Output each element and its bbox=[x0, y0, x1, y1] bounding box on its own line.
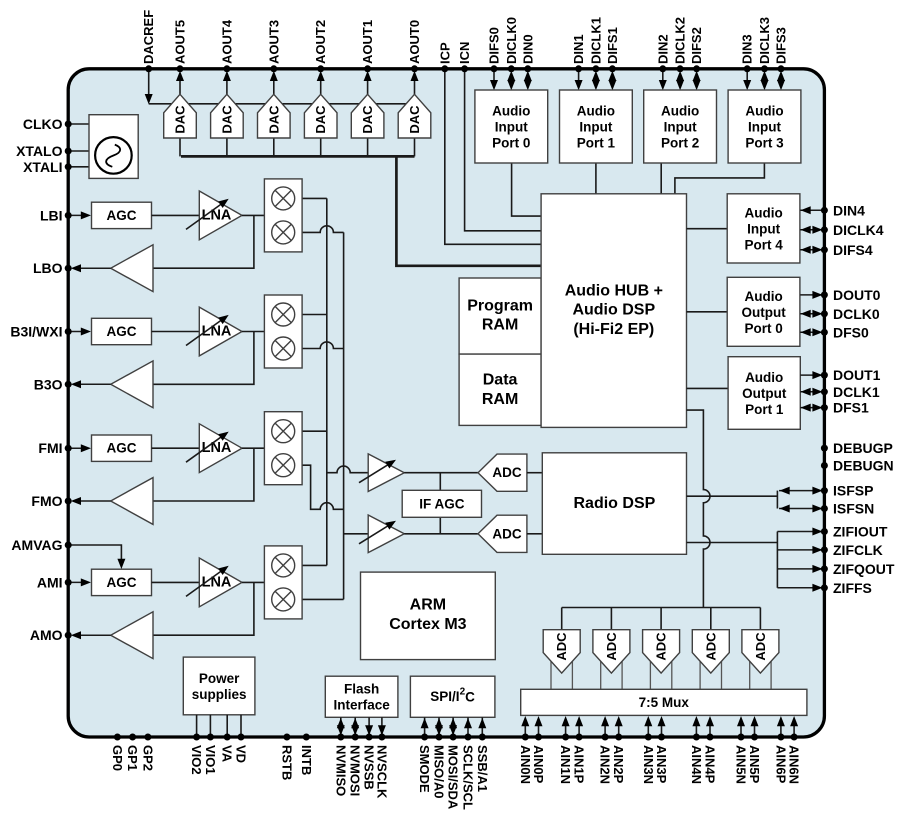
pin dot DCLK0 bbox=[821, 310, 828, 317]
wire IF amplifier 1 to ADC bbox=[404, 472, 478, 474]
pin wire AIN4N (input arrow to mux) bbox=[692, 716, 700, 735]
ADC block 2 (bank) bbox=[593, 630, 630, 690]
svg-text:AIN2P: AIN2P bbox=[611, 745, 626, 784]
svg-text:AIN2N: AIN2N bbox=[598, 745, 613, 784]
pin wire AIN3N (input arrow to mux) bbox=[644, 716, 652, 735]
svg-text:FMI: FMI bbox=[38, 440, 62, 456]
mixer pair block (LB) bbox=[264, 179, 302, 252]
wire bottom mixer output to bus B with hop (LB) bbox=[302, 226, 344, 233]
pin dot DEBUGP bbox=[821, 445, 828, 452]
pin dot ICP bbox=[441, 65, 448, 72]
pin dot DIFS4 bbox=[821, 246, 828, 253]
wire Audio Input Port 0 to Audio HUB bbox=[512, 163, 541, 216]
pin input arrow LB bbox=[68, 211, 91, 219]
svg-text:ZIFFS: ZIFFS bbox=[833, 580, 872, 596]
svg-text:SPI/I2C: SPI/I2C bbox=[430, 686, 475, 704]
wire Power supplies to pin VD bbox=[240, 715, 242, 737]
svg-text:AudioOutputPort 1: AudioOutputPort 1 bbox=[742, 370, 787, 417]
pin dot AIN3P bbox=[658, 734, 665, 741]
svg-text:AudioInputPort 3: AudioInputPort 3 bbox=[745, 103, 784, 150]
pin wire NVMISO bbox=[337, 717, 345, 735]
svg-text:FMO: FMO bbox=[31, 493, 62, 509]
pin dot VA bbox=[224, 734, 231, 741]
svg-text:ADC: ADC bbox=[554, 632, 569, 661]
wire LNA to mixers (B3) bbox=[242, 331, 264, 333]
svg-text:AIN5P: AIN5P bbox=[747, 745, 762, 784]
pin AMVAG wire with down arrow into AM AGC bbox=[68, 545, 125, 569]
pin dot DIN0 bbox=[524, 65, 531, 72]
ADC block 5 (bank) bbox=[742, 630, 779, 690]
svg-text:DIFS2: DIFS2 bbox=[689, 27, 704, 64]
AGC block (FM) bbox=[92, 435, 152, 461]
pin dot NVMOSI bbox=[352, 734, 359, 741]
wire Audio Input Port 2 to Audio HUB bbox=[660, 163, 662, 194]
DACREF reference line to DACs bbox=[149, 103, 415, 105]
pin dot AIN5N bbox=[738, 734, 745, 741]
wire AGC to LNA (FM) bbox=[152, 447, 200, 449]
pin dot AIN2N bbox=[602, 734, 609, 741]
svg-text:AIN0N: AIN0N bbox=[518, 745, 533, 784]
pin dot VIO1 bbox=[207, 734, 214, 741]
pin wire DFS0 (bidir) bbox=[800, 328, 824, 336]
Audio Input Port 3 pin stub right (bidir arrows) bbox=[777, 71, 785, 90]
pin dot XTALO bbox=[65, 148, 72, 155]
AGC block (LB) bbox=[92, 202, 152, 228]
svg-text:AIN1P: AIN1P bbox=[572, 745, 587, 784]
wire bus A to IF amplifier 1 (hop over bus B) bbox=[327, 466, 368, 473]
wire IF ADC 2 to Radio DSP bbox=[527, 533, 542, 535]
svg-text:GP1: GP1 bbox=[125, 745, 140, 771]
ADC block 3 (bank) bbox=[643, 630, 680, 690]
ARM Cortex M3 block bbox=[361, 572, 496, 660]
pin dot B3I/WXI bbox=[65, 328, 72, 335]
pin dot DFS1 bbox=[821, 404, 828, 411]
Flash Interface block bbox=[325, 676, 398, 717]
svg-text:NVSSB: NVSSB bbox=[362, 745, 377, 790]
svg-text:DIFS4: DIFS4 bbox=[833, 242, 873, 258]
pin wire AIN1N (input arrow to mux) bbox=[562, 716, 570, 735]
svg-text:DIFS1: DIFS1 bbox=[605, 27, 620, 64]
IQ bus line B (bottom mixer outputs) bbox=[343, 232, 345, 599]
svg-text:ADC: ADC bbox=[492, 465, 521, 480]
mixer pair block (B3) bbox=[264, 295, 302, 368]
svg-text:GP0: GP0 bbox=[110, 745, 125, 771]
svg-text:AMI: AMI bbox=[37, 574, 63, 590]
pin dot DICLK2 bbox=[677, 65, 684, 72]
pin wire ISFSP (bidir) bbox=[779, 487, 824, 495]
svg-text:AIN3N: AIN3N bbox=[641, 745, 656, 784]
pin dot SSB/A1 bbox=[479, 734, 486, 741]
pin dot AIN5P bbox=[751, 734, 758, 741]
pin dot DEBUGN bbox=[821, 462, 828, 469]
wire Power supplies to pin VIO1 bbox=[209, 715, 211, 737]
Audio Output Port 1 block bbox=[728, 357, 800, 430]
pin dot DIN3 bbox=[744, 65, 751, 72]
DAC supply/data bus (thick) to Audio HUB bbox=[181, 156, 541, 265]
svg-text:AIN0P: AIN0P bbox=[531, 745, 546, 784]
pin dot AIN1N bbox=[562, 734, 569, 741]
wire trunk to ADC 3 bbox=[660, 608, 662, 630]
pin dot DOUT1 bbox=[821, 372, 828, 379]
output buffer amplifier (FMO) bbox=[111, 478, 153, 525]
Program RAM block bbox=[459, 278, 541, 354]
pin dot ZIFFS bbox=[821, 584, 828, 591]
pin dot GP0 bbox=[114, 734, 121, 741]
pin dot DICLK4 bbox=[821, 226, 828, 233]
wire to output buffer (FM) bbox=[153, 448, 254, 501]
pin dot AIN4N bbox=[693, 734, 700, 741]
DAC block DAC0 bbox=[398, 94, 431, 138]
pin dot AIN6N bbox=[791, 734, 798, 741]
pin dot NVMISO bbox=[337, 734, 344, 741]
wire LNA to mixers (AM) bbox=[242, 581, 264, 583]
svg-text:MOSI/SDA: MOSI/SDA bbox=[446, 745, 461, 810]
Audio Input Port 3 pin stub left (single in-arrow) bbox=[743, 69, 751, 90]
svg-text:DIFS0: DIFS0 bbox=[487, 27, 502, 64]
pin wire AIN5N (input arrow to mux) bbox=[737, 716, 745, 735]
wire Audio HUB to Audio Input Port 4 bbox=[687, 228, 728, 230]
pin dot AOUT3 bbox=[270, 65, 277, 72]
wire Audio Input Port 1 to Audio HUB bbox=[595, 163, 597, 194]
svg-text:ADC: ADC bbox=[753, 632, 768, 661]
wire IF ADC 1 to Radio DSP bbox=[527, 472, 542, 474]
pin dot DICLK1 bbox=[592, 65, 599, 72]
svg-text:NVMOSI: NVMOSI bbox=[348, 745, 363, 796]
pin dot GP2 bbox=[144, 734, 151, 741]
pin dot DIN4 bbox=[821, 207, 828, 214]
svg-text:ISFSP: ISFSP bbox=[833, 483, 873, 499]
pin dot DIFS1 bbox=[609, 65, 616, 72]
Power supplies block bbox=[183, 657, 255, 715]
pin dot AOUT1 bbox=[364, 65, 371, 72]
pin dot ISFSP bbox=[821, 487, 828, 494]
svg-text:AudioInputPort 4: AudioInputPort 4 bbox=[744, 205, 783, 252]
pin wire AIN4P (input arrow to mux) bbox=[706, 716, 714, 735]
pin wire DICLK4 (bidir) bbox=[800, 226, 824, 234]
svg-text:IF AGC: IF AGC bbox=[419, 496, 464, 511]
Audio Input Port 2 block bbox=[644, 90, 717, 163]
pin dot AIN2P bbox=[615, 734, 622, 741]
pin wire AIN1P (input arrow to mux) bbox=[575, 716, 583, 735]
svg-text:DIN3: DIN3 bbox=[740, 34, 755, 64]
pin dot RSTB bbox=[283, 734, 290, 741]
oscillator block bbox=[89, 115, 138, 179]
pin dot AMO bbox=[65, 632, 72, 639]
pin dot CLKO bbox=[65, 121, 72, 128]
svg-text:CLKO: CLKO bbox=[23, 116, 63, 132]
pin wire AIN5P (input arrow to mux) bbox=[751, 716, 759, 735]
svg-text:MISO/A0: MISO/A0 bbox=[432, 745, 447, 798]
svg-text:DIFS3: DIFS3 bbox=[774, 27, 789, 64]
DAC 4 output wire to AOUT4 bbox=[223, 71, 231, 95]
pin dot AOUT0 bbox=[411, 65, 418, 72]
pin dot MOSI/SDA bbox=[450, 734, 457, 741]
svg-text:ADC: ADC bbox=[492, 526, 521, 541]
DAC 5 bottom stub to bus bbox=[179, 138, 181, 156]
wire LNA to mixers (LB) bbox=[242, 214, 264, 216]
svg-text:Audio HUB +Audio DSP(Hi-Fi2 EP: Audio HUB +Audio DSP(Hi-Fi2 EP) bbox=[565, 282, 663, 337]
DAC 3 output wire to AOUT3 bbox=[270, 71, 278, 95]
svg-text:ZIFCLK: ZIFCLK bbox=[833, 542, 883, 558]
pin wire ZIFQOUT (output arrow) bbox=[777, 565, 824, 573]
Audio Input Port 2 pin stub right (bidir arrows) bbox=[693, 71, 701, 90]
IQ bus line A (top mixer outputs) bbox=[326, 198, 328, 565]
pin dot AIN0N bbox=[522, 734, 529, 741]
wire Radio DSP to ZIF splitter bbox=[687, 542, 778, 544]
IF ADC block 1 bbox=[478, 454, 527, 491]
DAC 1 output wire to AOUT1 bbox=[364, 71, 372, 95]
DAC block DAC2 bbox=[304, 94, 337, 138]
pin dot DIN1 bbox=[575, 65, 582, 72]
svg-text:B3O: B3O bbox=[34, 376, 63, 392]
pin dot AOUT5 bbox=[177, 65, 184, 72]
pin wire DOUT1 (output arrow) bbox=[800, 371, 824, 379]
svg-text:DCLK0: DCLK0 bbox=[833, 306, 880, 322]
SPI/I2C block bbox=[410, 676, 495, 717]
Radio DSP block bbox=[542, 453, 686, 555]
pin dot DICLK3 bbox=[761, 65, 768, 72]
Audio Input Port 1 block bbox=[560, 90, 633, 163]
mixer pair block (FM) bbox=[264, 412, 302, 485]
svg-text:AOUT5: AOUT5 bbox=[173, 20, 188, 64]
svg-text:GP2: GP2 bbox=[140, 745, 155, 771]
svg-text:B3I/WXI: B3I/WXI bbox=[10, 324, 62, 340]
svg-text:DICLK4: DICLK4 bbox=[833, 222, 884, 238]
svg-text:LBO: LBO bbox=[33, 260, 63, 276]
mixer pair block (AM) bbox=[264, 546, 302, 619]
svg-text:AGC: AGC bbox=[107, 208, 137, 223]
svg-text:DIN1: DIN1 bbox=[571, 34, 586, 64]
AGC block (AM) bbox=[92, 569, 152, 595]
Audio Input Port 1 pin stub middle (bidir arrows) bbox=[592, 71, 600, 90]
svg-text:AIN1N: AIN1N bbox=[558, 745, 573, 784]
wire top mixer output to bus A (LB) bbox=[302, 197, 327, 199]
wire top mixer output to bus A (AM) bbox=[302, 564, 327, 566]
pin wire ZIFIOUT (output arrow) bbox=[777, 528, 824, 536]
Data RAM block bbox=[459, 354, 541, 425]
pin wire MISO/A0 bbox=[435, 717, 443, 735]
svg-text:DEBUGP: DEBUGP bbox=[833, 440, 893, 456]
wire trunk to ADC 1 bbox=[561, 608, 563, 630]
pin dot DIFS0 bbox=[491, 65, 498, 72]
pin dot AIN4P bbox=[707, 734, 714, 741]
Audio Input Port 0 pin stub right (bidir arrows) bbox=[524, 71, 532, 90]
ISFS splitter bar bbox=[776, 491, 778, 509]
wire bottom mixer output to bus B with hop (B3) bbox=[302, 342, 344, 349]
wire Audio HUB to Audio Output Port 1 bbox=[687, 387, 729, 389]
svg-text:ADC: ADC bbox=[703, 632, 718, 661]
LNA amplifier (FM) bbox=[186, 424, 242, 473]
pin wire DCLK1 (bidir) bbox=[800, 388, 824, 396]
wire ICP to Audio HUB bbox=[445, 69, 541, 245]
svg-text:DAC: DAC bbox=[266, 105, 281, 134]
svg-text:VA: VA bbox=[220, 745, 235, 763]
Audio Input Port 2 pin stub left (single in-arrow) bbox=[659, 69, 667, 90]
svg-text:AOUT1: AOUT1 bbox=[360, 20, 375, 64]
Audio Input Port 3 block bbox=[728, 90, 801, 163]
pin wire SCLK/SCL bbox=[464, 717, 472, 735]
pin dot LBO bbox=[65, 265, 72, 272]
pin input arrow FM bbox=[68, 444, 91, 452]
pin wire NVSCLK bbox=[378, 717, 386, 735]
svg-text:DAC: DAC bbox=[173, 105, 188, 134]
pin wire AIN2N (input arrow to mux) bbox=[601, 716, 609, 735]
svg-text:LBI: LBI bbox=[40, 207, 63, 223]
svg-text:DICLK2: DICLK2 bbox=[673, 17, 688, 64]
svg-text:NVMISO: NVMISO bbox=[333, 745, 348, 796]
svg-text:DACREF: DACREF bbox=[141, 10, 156, 64]
pin wire ISFSN (bidir) bbox=[779, 505, 824, 513]
wire Power supplies to pin VA bbox=[226, 715, 228, 737]
pin dot AMVAG bbox=[65, 542, 72, 549]
svg-text:AudioOutputPort 0: AudioOutputPort 0 bbox=[741, 288, 786, 335]
svg-text:SCLK/SCL: SCLK/SCL bbox=[461, 745, 476, 810]
svg-text:XTALI: XTALI bbox=[23, 159, 62, 175]
pin wire DIN4 (input arrow) bbox=[800, 206, 824, 214]
pin dot XTALI bbox=[65, 163, 72, 170]
wire ICN to Audio HUB bbox=[465, 69, 541, 231]
DAC 1 bottom stub to bus bbox=[367, 138, 369, 156]
wire Audio HUB to Audio Output Port 0 bbox=[687, 311, 728, 313]
wire IF AGC taps bbox=[439, 473, 441, 534]
DAC 5 output wire to AOUT5 bbox=[176, 71, 184, 95]
Audio Input Port 0 pin stub left (single in-arrow) bbox=[490, 69, 498, 90]
pin wire AIN6P (input arrow to mux) bbox=[777, 716, 785, 735]
wire Radio DSP to ISFS splitter bbox=[687, 495, 778, 497]
pin dot ZIFQOUT bbox=[821, 565, 828, 572]
pin dot VIO2 bbox=[193, 734, 200, 741]
IF AGC block bbox=[402, 490, 481, 517]
IF ADC block 2 bbox=[478, 515, 527, 552]
pin wire AIN6N (input arrow to mux) bbox=[790, 716, 798, 735]
pin wire MOSI/SDA bbox=[449, 717, 457, 735]
svg-text:AudioInputPort 2: AudioInputPort 2 bbox=[661, 103, 699, 150]
pin dot AOUT2 bbox=[317, 65, 324, 72]
pin dot SCLK/SCL bbox=[465, 734, 472, 741]
svg-text:DICLK3: DICLK3 bbox=[757, 17, 772, 64]
pin wire DOUT0 (output arrow) bbox=[800, 291, 824, 299]
ADC bank trunk line bbox=[562, 607, 761, 609]
DAC 4 bottom stub to bus bbox=[226, 138, 228, 156]
pin dot DICLK0 bbox=[508, 65, 515, 72]
pin dot GP1 bbox=[129, 734, 136, 741]
svg-text:ZIFIOUT: ZIFIOUT bbox=[833, 524, 888, 540]
DAC 3 bottom stub to bus bbox=[273, 138, 275, 156]
pin dot ZIFIOUT bbox=[821, 528, 828, 535]
wire top mixer output to bus A (FM) bbox=[302, 430, 327, 432]
svg-text:DIN2: DIN2 bbox=[655, 34, 670, 64]
DAC 2 output wire to AOUT2 bbox=[317, 71, 325, 95]
DAC block DAC1 bbox=[351, 94, 384, 138]
pin dot AIN6P bbox=[777, 734, 784, 741]
pin wire SSB/A1 bbox=[478, 717, 486, 735]
wire top mixer output to bus A (B3) bbox=[302, 314, 327, 316]
wire IF amplifier 2 to ADC bbox=[404, 533, 478, 535]
pin dot B3O bbox=[65, 381, 72, 388]
pin output arrow LBO bbox=[71, 264, 111, 272]
pin dot ICN bbox=[461, 65, 468, 72]
svg-text:INTB: INTB bbox=[299, 745, 314, 775]
wire AGC to LNA (LB) bbox=[152, 214, 200, 216]
pin wire ZIFFS (output arrow) bbox=[777, 584, 824, 592]
pin input arrow AM bbox=[68, 578, 91, 586]
pin dot DIFS3 bbox=[778, 65, 785, 72]
svg-text:AIN5N: AIN5N bbox=[734, 745, 749, 784]
svg-text:DAC: DAC bbox=[313, 105, 328, 134]
LNA amplifier (B3) bbox=[186, 307, 242, 356]
DAC block DAC3 bbox=[258, 94, 291, 138]
wire Power supplies to pin VIO2 bbox=[196, 715, 198, 737]
pin dot NVSCLK bbox=[378, 734, 385, 741]
svg-text:DFS1: DFS1 bbox=[833, 400, 869, 416]
svg-text:SSB/A1: SSB/A1 bbox=[475, 745, 490, 792]
pin wire DFS1 (bidir) bbox=[800, 404, 824, 412]
wire trunk to ADC 2 bbox=[610, 608, 612, 630]
pin dot ISFSN bbox=[821, 505, 828, 512]
pin dot FMI bbox=[65, 445, 72, 452]
svg-text:AIN6N: AIN6N bbox=[787, 745, 802, 784]
svg-text:ADC: ADC bbox=[604, 632, 619, 661]
svg-text:NVSCLK: NVSCLK bbox=[374, 745, 389, 799]
svg-text:DICLK1: DICLK1 bbox=[588, 17, 603, 64]
pin dot AMI bbox=[65, 579, 72, 586]
svg-text:VIO1: VIO1 bbox=[203, 745, 218, 775]
svg-text:DCLK1: DCLK1 bbox=[833, 384, 880, 400]
chip body outline bbox=[68, 69, 824, 737]
pin dot LBI bbox=[65, 212, 72, 219]
output buffer amplifier (B3O) bbox=[111, 361, 153, 408]
wire bottom mixer output to bus B (AM) bbox=[302, 598, 344, 600]
pin dot VD bbox=[238, 734, 245, 741]
LNA amplifier (AM) bbox=[186, 558, 242, 607]
pin output arrow B3O bbox=[71, 380, 111, 388]
DAC 2 bottom stub to bus bbox=[320, 138, 322, 156]
svg-text:AOUT2: AOUT2 bbox=[313, 20, 328, 64]
svg-text:DAC: DAC bbox=[360, 105, 375, 134]
pin dot AIN1P bbox=[576, 734, 583, 741]
svg-text:ICN: ICN bbox=[457, 42, 472, 64]
AGC block (B3) bbox=[92, 318, 152, 344]
ADC block 1 (bank) bbox=[543, 630, 580, 690]
Audio Input Port 1 pin stub left (single in-arrow) bbox=[575, 69, 583, 90]
svg-text:AIN4P: AIN4P bbox=[703, 745, 718, 784]
pin dot DOUT0 bbox=[821, 291, 828, 298]
pin output arrow FMO bbox=[71, 497, 111, 505]
pin dot MISO/A0 bbox=[436, 734, 443, 741]
Audio Input Port 0 block bbox=[475, 90, 548, 163]
Audio Output Port 0 block bbox=[727, 277, 800, 346]
LNA amplifier (LB) bbox=[186, 191, 242, 240]
svg-text:AudioInputPort 0: AudioInputPort 0 bbox=[492, 103, 530, 150]
svg-text:DOUT1: DOUT1 bbox=[833, 367, 881, 383]
wire trunk to ADC 4 bbox=[710, 608, 712, 630]
svg-text:AIN6P: AIN6P bbox=[773, 745, 788, 784]
ZIF splitter bar bbox=[776, 532, 778, 588]
svg-text:Powersupplies: Powersupplies bbox=[192, 671, 247, 702]
svg-text:AGC: AGC bbox=[107, 575, 137, 590]
wire XTALO to oscillator bbox=[68, 150, 89, 152]
svg-text:XTALO: XTALO bbox=[16, 143, 63, 159]
svg-text:AOUT0: AOUT0 bbox=[407, 20, 422, 64]
svg-text:DICLK0: DICLK0 bbox=[504, 17, 519, 64]
wire bottom mixer output to bus B with jog and hop (FM) bbox=[302, 465, 344, 509]
pin output arrow AMO bbox=[71, 631, 111, 639]
svg-text:DIN4: DIN4 bbox=[833, 202, 865, 218]
wire Audio HUB down to ADC trunk (with crossover hops) bbox=[687, 410, 710, 607]
svg-text:DAC: DAC bbox=[219, 105, 234, 134]
pin wire ZIFCLK (output arrow) bbox=[777, 546, 824, 554]
svg-text:AMO: AMO bbox=[30, 627, 63, 643]
